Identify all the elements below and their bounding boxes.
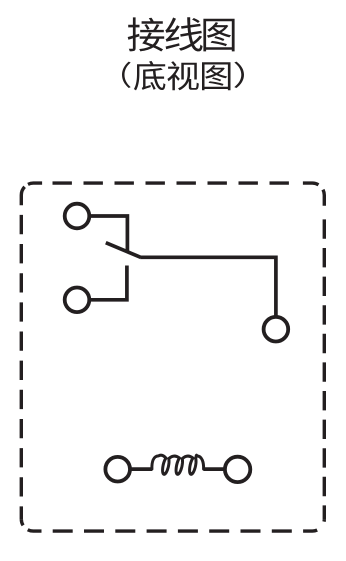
relay case outline (dashed) [21,183,324,531]
relay case bottom edge (dashed) [53,529,292,532]
coil terminal right [225,457,250,482]
relay case bottom-right corner wrap dash [303,530,317,531]
terminal NC (top-left) [65,204,90,229]
wire NC stub [90,216,127,252]
relay case right edge (dashed) [323,219,326,519]
wire NO stub [90,266,127,300]
wire common [140,257,276,316]
wire coil right [203,467,224,471]
relay case bottom-right corner arc dash [322,519,326,522]
relay case left edge (dashed) [20,215,23,519]
terminal COM (right) [264,317,289,342]
relay case top-right corner dash [303,183,319,185]
relay case top edge (dashed) [53,181,291,184]
relay case bottom-left corner arc dash [21,519,23,525]
coil L1 [152,455,204,474]
title 接线图 (Wiring Diagram) [128,17,235,51]
relay case top-right corner right dash [323,190,324,206]
wire coil left [131,467,153,471]
relay case bottom-left corner wrap dash [28,530,42,531]
relay case top-left corner lower dash [21,187,24,205]
relay case top-left corner dash [28,183,42,184]
subtitle （底视图） (Bottom View) [122,61,244,91]
coil terminal left [105,457,130,482]
terminal NO (mid-left) [65,288,90,313]
switch blade [106,243,141,258]
